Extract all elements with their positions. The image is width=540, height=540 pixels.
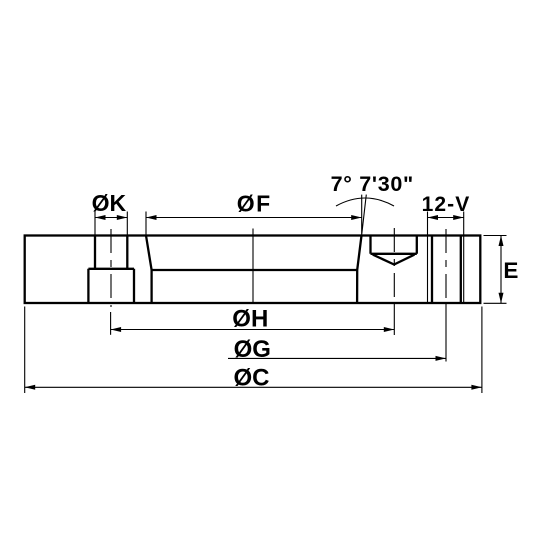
svg-text:ØK: ØK xyxy=(92,190,127,216)
svg-text:ØG: ØG xyxy=(234,336,271,363)
svg-text:E: E xyxy=(503,258,518,283)
svg-text:ØF: ØF xyxy=(237,191,272,217)
svg-text:7° 7'30": 7° 7'30" xyxy=(331,172,414,196)
svg-text:ØC: ØC xyxy=(234,364,270,391)
svg-text:ØH: ØH xyxy=(232,306,268,333)
svg-text:12-V: 12-V xyxy=(422,193,471,216)
